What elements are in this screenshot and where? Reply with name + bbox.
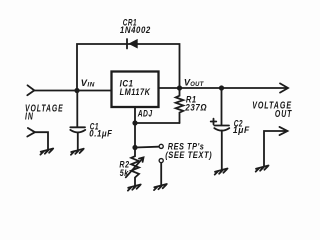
- output arrowhead: [280, 83, 288, 92]
- ground under test point: [154, 184, 167, 190]
- wire input return to ground: [35, 132, 48, 149]
- op-amp IC1 regulator box: [112, 72, 159, 108]
- ground under output return: [256, 166, 269, 172]
- node C2 tap junction dot: [219, 85, 224, 90]
- node VOUT junction dot: [177, 85, 182, 90]
- svg-text:OUT: OUT: [275, 109, 292, 120]
- capacitor C2 plus sign: [211, 119, 217, 125]
- wire ADJ node down: [134, 123, 136, 148]
- diode CR1 cathode bar: [126, 39, 128, 49]
- input connector arrow (voltage in hot): [27, 85, 34, 95]
- svg-text:ADJ: ADJ: [137, 109, 153, 119]
- wire ADJ to R1 bottom: [135, 122, 180, 124]
- diode CR1 triangle: [128, 39, 137, 49]
- wire to test point 1: [135, 146, 159, 149]
- svg-text:IN: IN: [25, 112, 34, 123]
- svg-text:LM117K: LM117K: [120, 87, 151, 97]
- svg-text:(SEE TEXT): (SEE TEXT): [165, 150, 212, 160]
- wire test point 2 to ground: [160, 163, 162, 185]
- potentiometer R2 wiper arrow: [126, 157, 144, 177]
- ground under C1: [71, 149, 84, 155]
- svg-text:5k: 5k: [120, 168, 129, 178]
- capacitor C1 top lead: [76, 91, 78, 128]
- svg-text:237Ω: 237Ω: [185, 103, 208, 113]
- capacitor C1 bottom curved plate: [70, 130, 85, 133]
- capacitor C2 top lead: [221, 88, 223, 125]
- svg-text:OUT: OUT: [190, 82, 205, 88]
- capacitor C2 bottom curved plate: [214, 128, 229, 131]
- output return arrow: [264, 127, 288, 167]
- node TP junction dot: [132, 145, 137, 150]
- wire input rail: [34, 90, 111, 92]
- capacitor C1 top plate: [70, 126, 85, 128]
- test point 2 circle: [159, 159, 163, 163]
- svg-text:IN: IN: [87, 83, 95, 89]
- capacitor C2 top plate: [214, 125, 229, 127]
- wire ADJ pin: [134, 107, 136, 123]
- svg-text:0.1μF: 0.1μF: [89, 129, 112, 139]
- resistor R1 zigzag: [176, 88, 184, 123]
- wire top protection branch: [77, 44, 180, 91]
- svg-text:1μF: 1μF: [233, 125, 250, 135]
- capacitor C2 bottom lead: [221, 131, 223, 170]
- potentiometer R2 zigzag: [131, 148, 139, 186]
- test point 1 circle: [159, 144, 163, 148]
- capacitor C1 bottom lead: [77, 132, 79, 149]
- ground under input return: [40, 149, 53, 155]
- node VIN junction dot: [74, 88, 79, 93]
- input connector arrow (voltage in return): [27, 128, 35, 137]
- node ADJ junction dot: [132, 120, 137, 125]
- svg-text:1N4002: 1N4002: [120, 25, 151, 35]
- ground under R2: [128, 185, 141, 191]
- wire output rail: [159, 87, 287, 89]
- ground under C2: [215, 169, 228, 175]
